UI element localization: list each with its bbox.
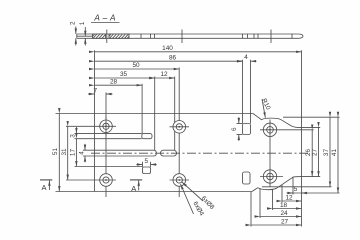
dimension 3 bbox=[70, 127, 77, 138]
section hatch left bbox=[93, 34, 106, 38]
svg-text:41: 41 bbox=[331, 149, 338, 157]
extension line rect3 right bbox=[250, 60, 252, 124]
dimension 4 (top rect width) bbox=[237, 54, 257, 61]
svg-text:A – A: A – A bbox=[93, 13, 116, 22]
dome apex extension line bbox=[283, 116, 340, 118]
hole H4 bottom-left bbox=[100, 174, 113, 187]
section centerline hole3 bbox=[270, 30, 272, 44]
svg-text:51: 51 bbox=[52, 148, 59, 156]
extension+centerline hole column 1 bbox=[105, 93, 107, 198]
dimension 27 bottom bbox=[251, 219, 302, 226]
svg-text:31: 31 bbox=[61, 148, 68, 156]
plate right edge bbox=[301, 127, 303, 176]
section ticks bbox=[141, 34, 292, 39]
dimension 12 bbox=[155, 71, 175, 78]
tab hole T2 horizontal centerline bbox=[260, 176, 283, 178]
rect4 bottom-right cutout bbox=[243, 172, 251, 184]
section marker A mid bbox=[130, 180, 142, 193]
dimension 50 bbox=[95, 62, 180, 69]
label 6xO8 with leader bbox=[182, 182, 216, 211]
svg-text:140: 140 bbox=[162, 45, 173, 52]
tab holes vertical centerline bbox=[269, 120, 271, 187]
svg-text:27: 27 bbox=[311, 149, 318, 157]
dimension 4 (slot height) bbox=[78, 144, 85, 162]
tab hole T1 horizontal centerline + ext for 26 bbox=[260, 129, 314, 131]
extension line 12 right bbox=[174, 77, 176, 151]
label 6xO4 with leader bbox=[181, 184, 206, 217]
svg-text:37: 37 bbox=[323, 149, 330, 157]
extension line 35 right bbox=[154, 77, 156, 151]
dimension 28 bbox=[95, 79, 143, 86]
dimension 37 bbox=[323, 117, 330, 187]
svg-text:17: 17 bbox=[70, 149, 77, 157]
extension line rect2 top (17 bottom) bbox=[75, 166, 143, 168]
hole H2 top-mid bbox=[170, 121, 190, 134]
extension+centerline hole column 2 bbox=[178, 68, 180, 198]
svg-text:86: 86 bbox=[169, 55, 177, 62]
extension line 28 right bbox=[141, 84, 143, 134]
tab hole T2 bbox=[263, 170, 276, 183]
svg-text:4: 4 bbox=[244, 54, 248, 61]
plate left edge bbox=[94, 114, 96, 192]
section hatch right bbox=[109, 34, 129, 38]
dimension 17 bbox=[70, 139, 77, 167]
label R10 with leader bbox=[260, 98, 272, 118]
extension line right edge top bbox=[301, 50, 303, 127]
section centerline hole2 bbox=[181, 30, 183, 44]
hole H5 bottom-mid bbox=[170, 174, 190, 187]
dimension 51 bbox=[52, 114, 59, 192]
plate bottom right knuckle profile bbox=[252, 177, 302, 192]
dimension 35 bbox=[95, 71, 155, 78]
rect2 lower-left cutout bbox=[143, 167, 151, 174]
extension line rect3 left bbox=[242, 60, 244, 124]
svg-text:12: 12 bbox=[285, 195, 293, 202]
upper slot bbox=[75, 134, 142, 139]
svg-text:A: A bbox=[41, 183, 46, 192]
dimension 2 (section thickness) bbox=[70, 21, 77, 46]
dimension 27 (tab) bbox=[311, 127, 318, 176]
svg-text:A: A bbox=[131, 184, 136, 193]
svg-text:18: 18 bbox=[280, 202, 288, 209]
middle slot segment 2 bbox=[161, 150, 177, 156]
svg-text:6: 6 bbox=[231, 127, 238, 131]
dimension 6 (rect3 height) bbox=[231, 117, 243, 141]
section bar mid line bbox=[77, 35, 93, 37]
centerline extension 31 top (hole row 1) bbox=[66, 125, 97, 127]
plate top edge bbox=[56, 113, 254, 115]
dimension 12 bottom bbox=[282, 195, 302, 202]
dimension 31 bbox=[61, 126, 68, 180]
main horizontal centerline (dash-dot) bbox=[91, 152, 308, 154]
svg-text:27: 27 bbox=[281, 219, 289, 226]
bottom chain extension lines bbox=[251, 177, 302, 227]
section bar outline bbox=[77, 34, 303, 38]
section marker A left bbox=[40, 180, 52, 192]
bottom chain row 5 line (also 41 bottom ext) bbox=[287, 186, 340, 193]
svg-text:28: 28 bbox=[110, 79, 118, 86]
extension line left ref bbox=[94, 50, 96, 113]
svg-text:4: 4 bbox=[78, 151, 85, 155]
shoulder extension line bbox=[262, 186, 332, 188]
section centerline hole1 bbox=[106, 30, 108, 44]
rect3 top-right cutout bbox=[243, 124, 251, 135]
svg-text:1: 1 bbox=[79, 21, 86, 25]
svg-text:12: 12 bbox=[160, 71, 168, 78]
svg-text:5: 5 bbox=[145, 158, 149, 165]
tab hole T1 bbox=[263, 123, 276, 136]
upper slot end rect1 bbox=[142, 134, 152, 139]
svg-text:3: 3 bbox=[70, 134, 77, 138]
svg-text:2: 2 bbox=[70, 21, 77, 25]
centerline extension 31 bottom (hole row 4) bbox=[66, 179, 116, 181]
svg-text:5: 5 bbox=[294, 186, 298, 193]
dimension 86 bbox=[95, 55, 243, 62]
dimension 18 bottom bbox=[273, 202, 302, 209]
tab bottom extension line bbox=[302, 176, 321, 178]
dimension 140 bbox=[95, 45, 302, 52]
svg-text:35: 35 bbox=[120, 71, 128, 78]
plate bottom edge bbox=[56, 191, 253, 193]
dimension 24 bottom bbox=[260, 210, 302, 217]
dimension 1 (section step) bbox=[79, 21, 86, 45]
tab top extension line bbox=[302, 126, 321, 128]
dimension 26 bbox=[305, 130, 312, 177]
section title A-A bbox=[91, 13, 120, 22]
middle slot bbox=[83, 150, 156, 156]
hole H1 top-left bbox=[97, 117, 117, 137]
dimension 41 bbox=[331, 117, 338, 193]
svg-text:24: 24 bbox=[280, 210, 288, 217]
dimension 7 bbox=[88, 87, 113, 94]
dimension 5 (rect2 width) bbox=[136, 158, 156, 167]
svg-text:50: 50 bbox=[132, 62, 140, 69]
plate top right knuckle profile R10 bbox=[253, 114, 302, 128]
